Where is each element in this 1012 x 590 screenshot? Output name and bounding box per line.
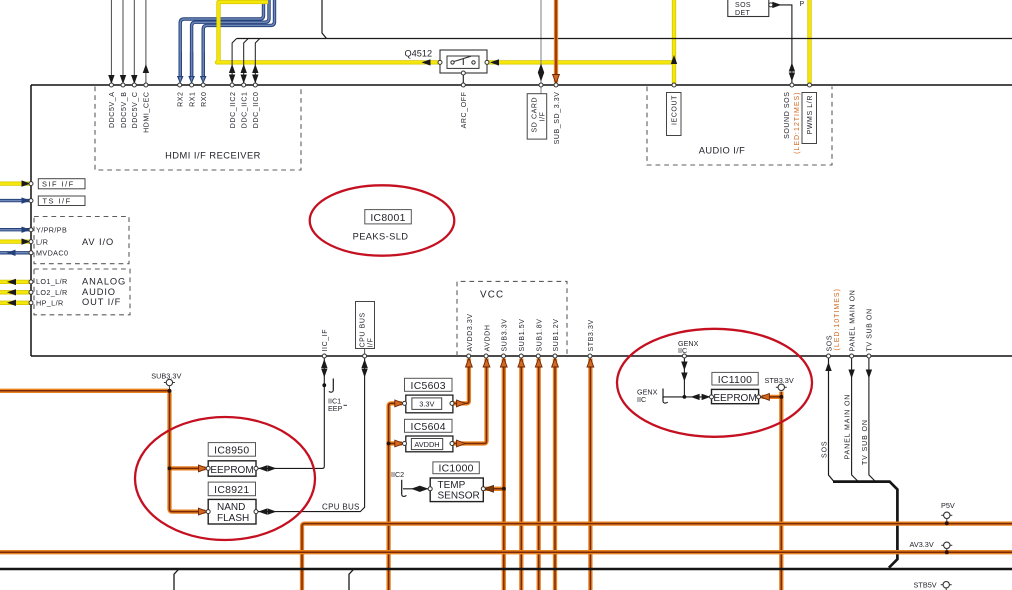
svg-text:IIC: IIC <box>678 346 687 355</box>
svg-text:AV3.3V: AV3.3V <box>910 540 934 549</box>
svg-text:MVDAC0: MVDAC0 <box>36 249 68 258</box>
svg-text:PWMS L/R: PWMS L/R <box>807 95 814 134</box>
svg-text:IC5604: IC5604 <box>411 422 446 433</box>
svg-text:PEAKS-SLD: PEAKS-SLD <box>353 231 409 241</box>
svg-text:SUB_SD_3.3V: SUB_SD_3.3V <box>554 92 561 145</box>
svg-text:AUDIO: AUDIO <box>82 287 116 297</box>
svg-text:IC1000: IC1000 <box>438 463 473 474</box>
svg-text:AV I/O: AV I/O <box>82 237 114 247</box>
svg-text:I/F: I/F <box>539 112 546 122</box>
svg-text:STB5V: STB5V <box>914 581 937 590</box>
svg-text:NAND: NAND <box>217 502 245 513</box>
svg-text:TV SUB ON: TV SUB ON <box>862 419 869 465</box>
svg-text:AVDDH: AVDDH <box>414 440 439 449</box>
svg-text:HDMI_CEC: HDMI_CEC <box>144 92 151 133</box>
svg-text:IC8001: IC8001 <box>370 213 405 224</box>
svg-text:TS I/F: TS I/F <box>43 197 72 206</box>
svg-text:ANALOG: ANALOG <box>82 277 126 287</box>
svg-text:3.3V: 3.3V <box>419 400 434 409</box>
svg-text:STB3.3V: STB3.3V <box>765 376 794 385</box>
svg-text:DDC5V_A: DDC5V_A <box>109 92 116 129</box>
svg-text:HP_L/R: HP_L/R <box>36 299 64 308</box>
svg-text:DDC_IIC0: DDC_IIC0 <box>253 92 260 129</box>
svg-text:DDC5V_C: DDC5V_C <box>132 92 139 129</box>
svg-text:(LED:12TIMES): (LED:12TIMES) <box>794 92 801 154</box>
svg-text:P: P <box>800 1 805 8</box>
svg-text:L/R: L/R <box>36 237 48 246</box>
svg-text:Y/PR/PB: Y/PR/PB <box>36 225 67 234</box>
svg-text:DDC5V_B: DDC5V_B <box>121 92 128 129</box>
svg-text:SENSOR: SENSOR <box>438 491 480 502</box>
svg-text:IECOUT: IECOUT <box>672 95 679 125</box>
svg-text:CPU BUS: CPU BUS <box>360 312 367 347</box>
svg-text:DDC_IIC2: DDC_IIC2 <box>230 92 237 129</box>
svg-text:SUB1.8V: SUB1.8V <box>537 319 544 352</box>
svg-text:LO1_L/R: LO1_L/R <box>36 277 68 286</box>
svg-text:IC8921: IC8921 <box>214 485 249 496</box>
svg-text:I/F: I/F <box>367 338 374 348</box>
svg-text:IIC_IF: IIC_IF <box>322 329 329 352</box>
svg-text:SOS: SOS <box>735 2 751 9</box>
svg-text:IC8950: IC8950 <box>214 446 249 457</box>
svg-text:IIC: IIC <box>637 395 646 404</box>
svg-text:(LED:10TIMES): (LED:10TIMES) <box>834 288 841 350</box>
svg-text:SUB3.3V: SUB3.3V <box>151 372 181 381</box>
svg-text:Q4512: Q4512 <box>405 49 433 59</box>
svg-text:RX0: RX0 <box>201 92 208 107</box>
svg-text:SOS: SOS <box>822 441 829 458</box>
svg-text:EEPROM: EEPROM <box>713 393 756 404</box>
svg-text:OUT I/F: OUT I/F <box>82 297 121 307</box>
svg-text:PANEL MAIN ON: PANEL MAIN ON <box>849 290 856 352</box>
svg-text:SUB1.2V: SUB1.2V <box>553 319 560 352</box>
svg-text:TEMP: TEMP <box>438 480 466 491</box>
svg-text:CPU BUS: CPU BUS <box>322 503 360 512</box>
svg-text:P5V: P5V <box>941 501 955 510</box>
svg-text:AVDDH: AVDDH <box>484 325 491 352</box>
svg-text:HDMI I/F RECEIVER: HDMI I/F RECEIVER <box>165 151 261 161</box>
svg-text:DDC_IIC1: DDC_IIC1 <box>242 92 249 129</box>
svg-text:SOUND SOS: SOUND SOS <box>784 92 791 139</box>
svg-text:VCC: VCC <box>480 290 504 301</box>
svg-text:SOS: SOS <box>826 335 833 352</box>
svg-text:FLASH: FLASH <box>217 513 249 524</box>
svg-text:EEPROM: EEPROM <box>210 465 253 476</box>
svg-text:TV SUB ON: TV SUB ON <box>867 308 874 351</box>
svg-text:EEP: EEP <box>328 404 343 413</box>
svg-text:SUB1.5V: SUB1.5V <box>519 319 526 352</box>
svg-text:AUDIO I/F: AUDIO I/F <box>699 146 745 156</box>
svg-text:IC1100: IC1100 <box>718 375 753 386</box>
svg-text:SD CARD: SD CARD <box>532 97 539 133</box>
svg-text:AVDD3.3V: AVDD3.3V <box>467 313 474 351</box>
svg-text:SIF I/F: SIF I/F <box>42 180 75 189</box>
svg-text:RX2: RX2 <box>178 92 185 107</box>
svg-text:IC5603: IC5603 <box>411 381 446 392</box>
svg-text:IIC2: IIC2 <box>391 470 404 479</box>
svg-text:STB3.3V: STB3.3V <box>588 319 595 351</box>
svg-text:SUB3.3V: SUB3.3V <box>502 319 509 352</box>
svg-text:LO2_L/R: LO2_L/R <box>36 288 68 297</box>
svg-text:ARC_OFF: ARC_OFF <box>461 92 468 129</box>
svg-text:PANEL MAIN ON: PANEL MAIN ON <box>845 394 852 460</box>
svg-text:DET: DET <box>735 10 751 17</box>
svg-text:RX1: RX1 <box>189 92 196 107</box>
